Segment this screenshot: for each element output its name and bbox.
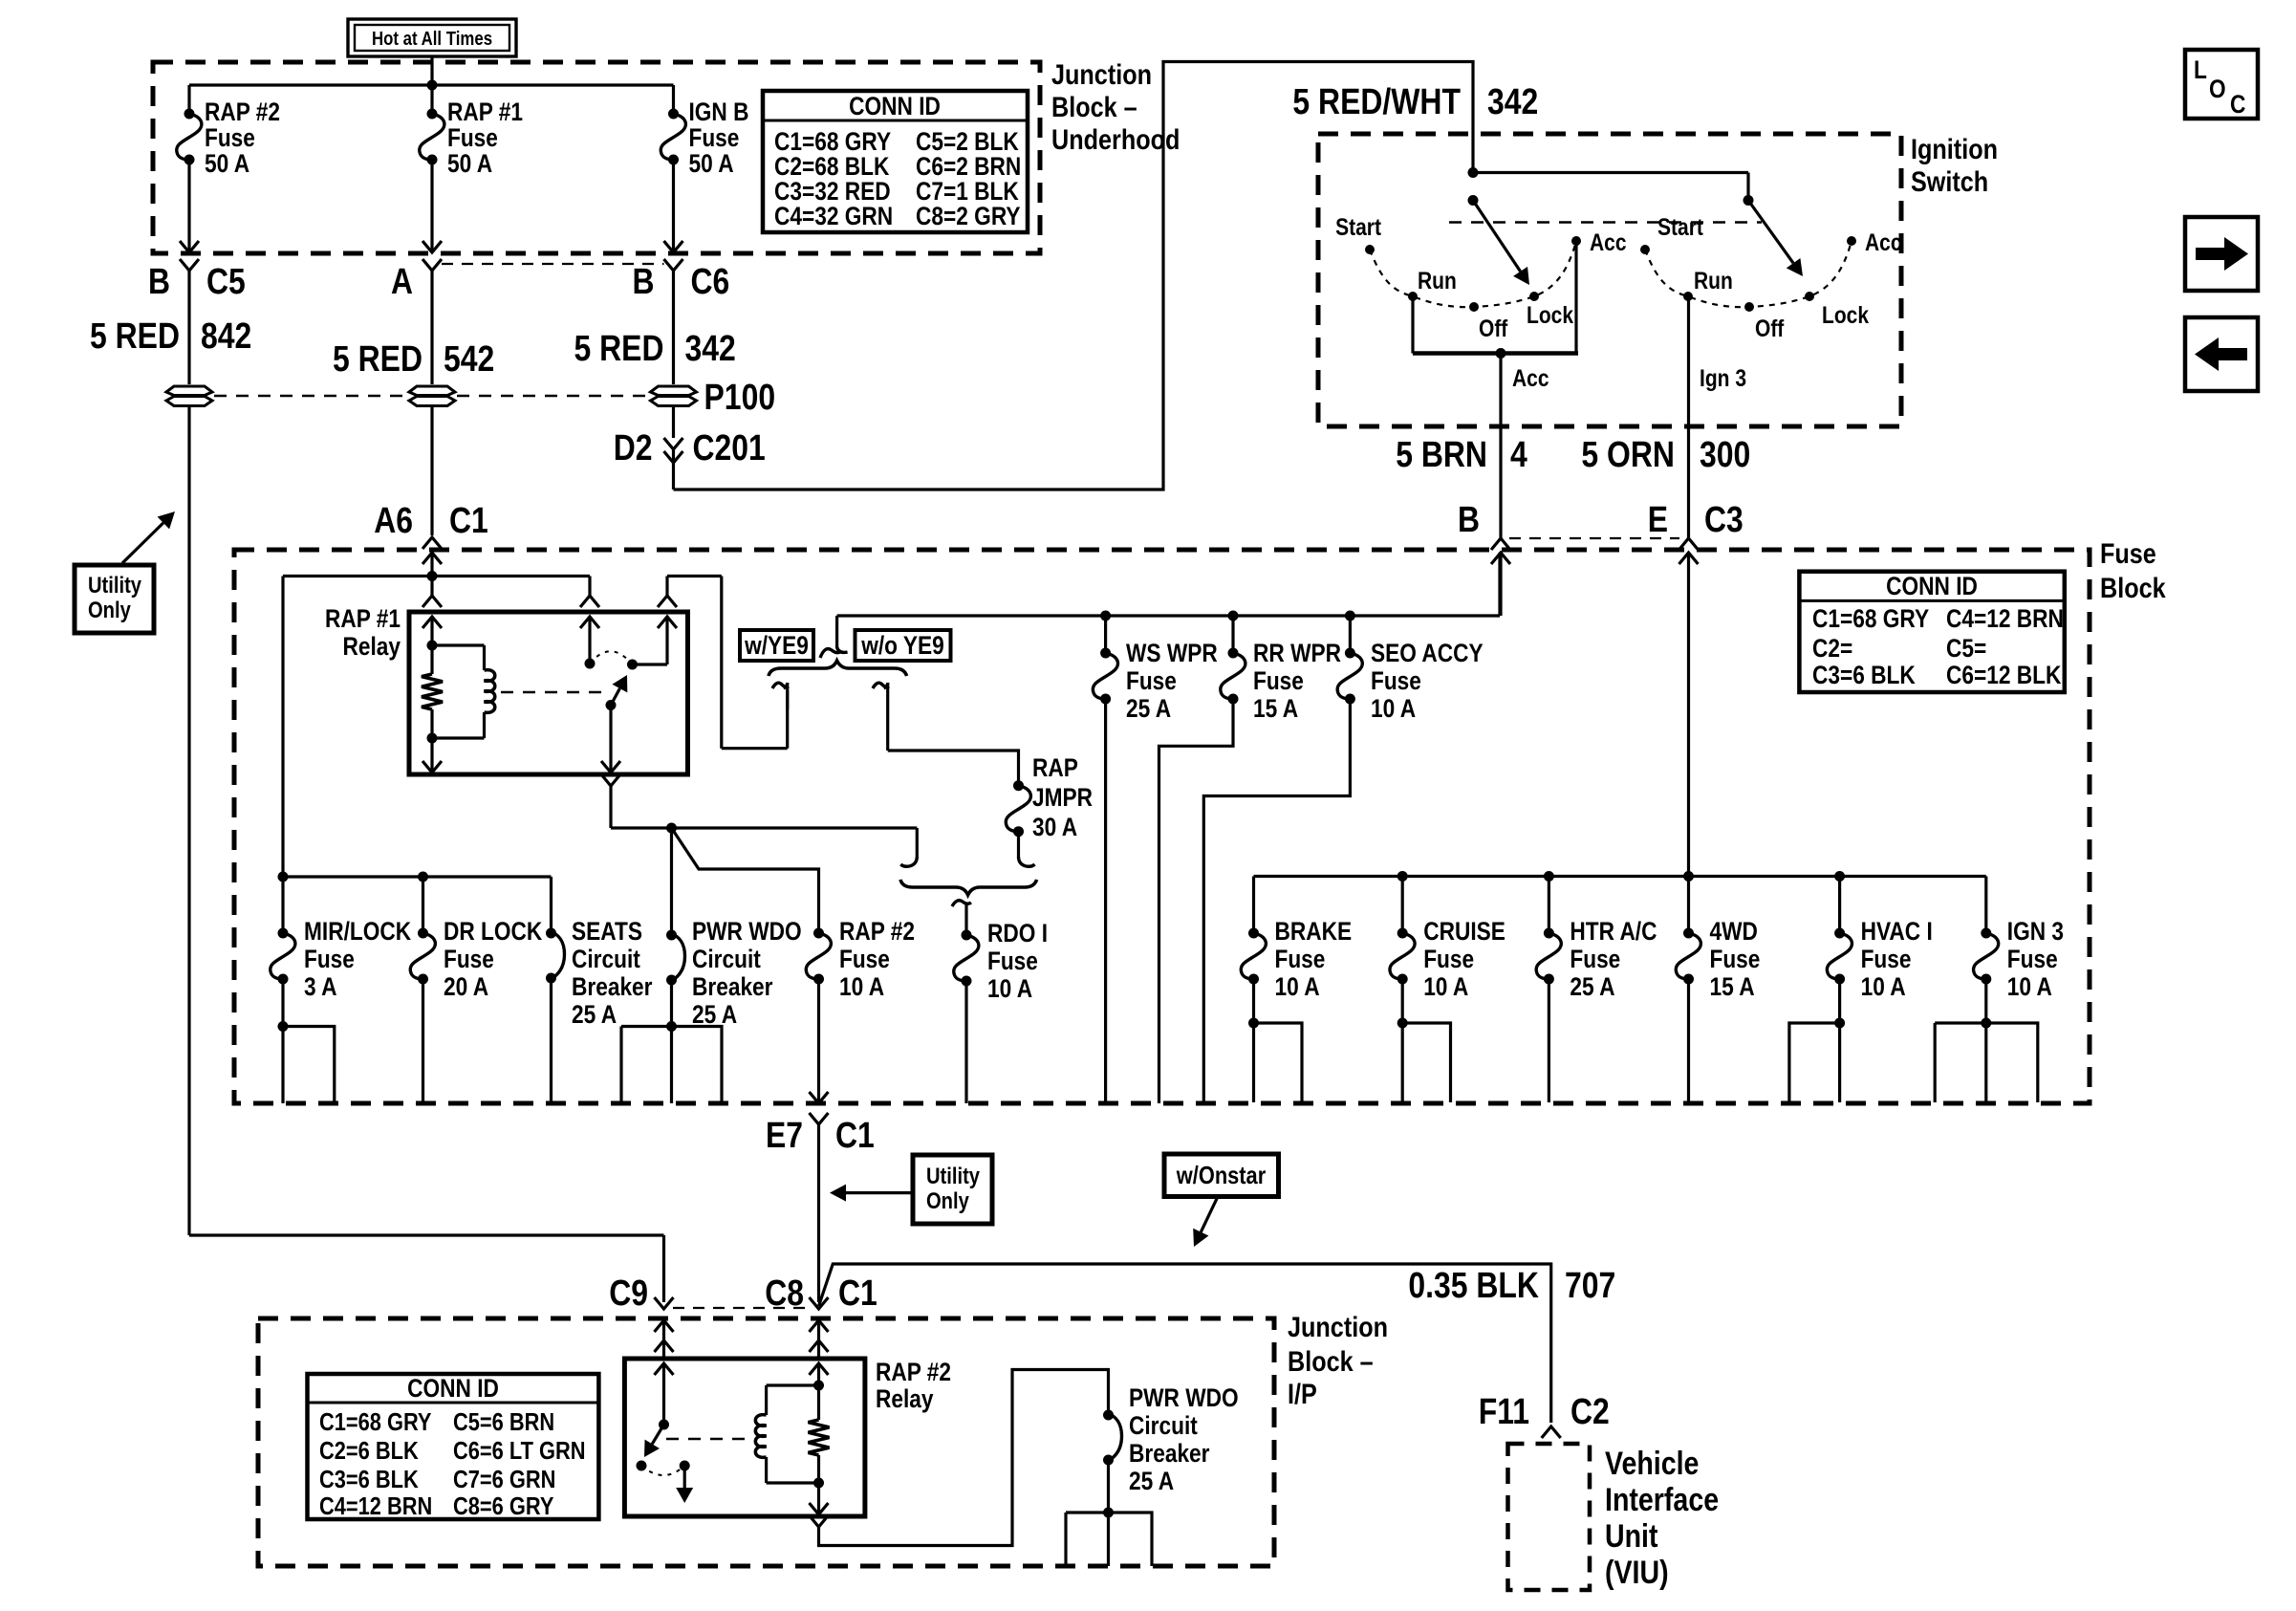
svg-text:C5=: C5=: [1946, 634, 1986, 663]
wire: WS WPR output to border: [1104, 699, 1107, 1103]
Vehicle Interface Unit dashed box: [1508, 1444, 1591, 1590]
selector brace (top, opens down): [769, 661, 907, 676]
svg-text:Off: Off: [1479, 316, 1508, 342]
svg-text:C1: C1: [835, 1116, 875, 1156]
svg-text:C4=32 GRN: C4=32 GRN: [774, 202, 893, 230]
svg-text:IGN B: IGN B: [689, 98, 749, 126]
relay RAP#2 output arrow to case bottom: [817, 1483, 820, 1503]
connector pin A (female chevron below border): [422, 259, 442, 271]
svg-text:Relay: Relay: [343, 632, 401, 661]
svg-text:C2=6 BLK: C2=6 BLK: [319, 1436, 419, 1465]
Fuse Block dashed enclosure: [234, 550, 2090, 1103]
connector C3 pin E entry (Ign 3 feed): [1679, 538, 1699, 550]
svg-text:C4=12 BRN: C4=12 BRN: [1946, 604, 2064, 633]
svg-text:5 RED: 5 RED: [333, 339, 422, 380]
svg-text:5 RED/WHT: 5 RED/WHT: [1292, 82, 1461, 122]
svg-text:10 A: 10 A: [1371, 694, 1416, 723]
svg-text:Fuse: Fuse: [689, 123, 740, 152]
svg-text:O: O: [2209, 75, 2226, 103]
svg-text:5 ORN: 5 ORN: [1581, 435, 1675, 475]
fuse CRUISE 10A: [1397, 928, 1408, 939]
svg-text:10 A: 10 A: [987, 974, 1032, 1003]
svg-text:0.35 BLK: 0.35 BLK: [1408, 1266, 1539, 1306]
svg-text:Start: Start: [1657, 214, 1703, 241]
fuse HVAC I 10A: [1834, 928, 1845, 939]
svg-text:Acc: Acc: [1865, 229, 1902, 256]
connector C1 pin E7 exit (female chevron): [810, 1113, 829, 1124]
svg-text:4WD: 4WD: [1710, 917, 1758, 946]
svg-text:C1: C1: [838, 1274, 877, 1314]
wire: selector apex to wiper fuse bus: [835, 616, 838, 648]
svg-text:Vehicle: Vehicle: [1605, 1446, 1699, 1482]
wire: diagonal branch to RAP #2 fuse: [672, 828, 819, 933]
svg-text:50 A: 50 A: [689, 149, 734, 178]
svg-text:B: B: [633, 262, 655, 302]
svg-text:RR WPR: RR WPR: [1253, 639, 1341, 667]
svg-text:C7=6 GRN: C7=6 GRN: [453, 1465, 555, 1493]
svg-text:Block: Block: [2100, 573, 2166, 604]
wire: RAP #2 fuse output with arrow to border: [187, 160, 190, 241]
relay RAP#1 dotted throw arc: [590, 651, 633, 664]
Junction Block - I/P dashed enclosure: [258, 1318, 1274, 1566]
svg-text:JMPR: JMPR: [1032, 783, 1093, 812]
svg-text:5 BRN: 5 BRN: [1396, 435, 1487, 475]
svg-text:25 A: 25 A: [1129, 1467, 1174, 1495]
svg-text:Only: Only: [88, 598, 131, 623]
wire: IGN 3 output splice: [1984, 979, 1987, 1102]
svg-text:Run: Run: [1694, 268, 1733, 294]
fuse HTR A/C 25A: [1544, 928, 1554, 939]
svg-text:Interface: Interface: [1605, 1482, 1719, 1518]
svg-text:25 A: 25 A: [1570, 972, 1614, 1001]
wire: Acc output down to fuse block, label Acc: [1499, 354, 1502, 539]
dashed mechanical linkage between switch wipers: [1449, 221, 1762, 223]
svg-text:(VIU): (VIU): [1605, 1555, 1669, 1591]
CONN ID table (Junction Block I/P): [308, 1374, 599, 1519]
reference box: back arrow: [2185, 317, 2258, 391]
svg-text:Unit: Unit: [1605, 1518, 1658, 1555]
selector left branch squiggle (w/YE9): [772, 683, 789, 688]
wire: IGN B fuse output with arrow to border: [672, 160, 675, 241]
wire: RAP #2 output to E7 with arrow: [817, 979, 820, 1092]
svg-text:25 A: 25 A: [572, 1000, 617, 1029]
svg-text:Breaker: Breaker: [692, 972, 773, 1001]
svg-text:C3: C3: [1704, 500, 1744, 540]
dashed connector interface line between A and C6: [442, 263, 664, 265]
lower selector brace (opens up): [900, 880, 1037, 895]
circuit breaker PWR WDO 25A (junction block I/P): [1103, 1410, 1114, 1421]
svg-text:Breaker: Breaker: [1129, 1439, 1210, 1468]
svg-text:5 RED: 5 RED: [574, 329, 664, 369]
svg-text:E7: E7: [766, 1116, 803, 1156]
wire: feed bus inside junction block: [189, 83, 674, 86]
svg-text:I/P: I/P: [1288, 1379, 1317, 1410]
svg-text:Fuse: Fuse: [1861, 945, 1912, 973]
svg-text:C8=6 GRY: C8=6 GRY: [453, 1491, 553, 1520]
wire: RR WPR output jog to border: [1159, 699, 1234, 1103]
svg-text:RAP #1: RAP #1: [325, 604, 401, 633]
svg-text:HVAC I: HVAC I: [1861, 917, 1933, 946]
svg-text:E: E: [1648, 500, 1668, 540]
wire: feed bus to RAP#1 relay and left fuses: [283, 575, 590, 577]
svg-text:Fuse: Fuse: [1275, 945, 1326, 973]
junction node on feed bus: [427, 80, 438, 91]
svg-text:w/o YE9: w/o YE9: [860, 631, 943, 660]
svg-text:RAP: RAP: [1032, 753, 1078, 782]
relay RAP#2 coil pin: [810, 1363, 829, 1375]
svg-text:w/Onstar: w/Onstar: [1176, 1161, 1266, 1189]
fuse 4WD 15A: [1683, 928, 1694, 939]
svg-text:Hot at All Times: Hot at All Times: [372, 29, 492, 50]
svg-text:Fuse: Fuse: [987, 947, 1038, 975]
wire: Acc output bus inside ignition switch: [1411, 296, 1414, 354]
svg-text:PWR WDO: PWR WDO: [1129, 1383, 1239, 1412]
connector: relay RAP#2 output socket chevron: [810, 1515, 829, 1527]
svg-text:Fuse: Fuse: [1710, 945, 1761, 973]
connector C8/C1 entry (female chevron + double arrows): [810, 1297, 829, 1309]
ignition switch wiper arrow (Ign 3 section): [1748, 201, 1793, 264]
wire: Ign 3 output down to fuse block, label Ign 3: [1687, 296, 1690, 538]
svg-text:Relay: Relay: [876, 1384, 934, 1413]
svg-text:CONN ID: CONN ID: [1886, 572, 1978, 600]
dashed connector interface line between C9 and C8: [673, 1307, 808, 1309]
svg-text:Start: Start: [1335, 214, 1381, 241]
svg-text:P100: P100: [704, 378, 776, 418]
Junction Block - Underhood dashed enclosure: [153, 62, 1040, 253]
dashed linkage RAP#2 armature to coil: [666, 1438, 753, 1440]
selector right branch squiggle (w/o YE9): [873, 683, 889, 688]
connector C6 pin B (female chevron below border): [664, 259, 683, 271]
svg-text:Fuse: Fuse: [447, 123, 498, 152]
relay RAP#2 dotted throw arc: [641, 1466, 684, 1475]
relay RAP#2 coil winding: [767, 1383, 819, 1386]
connector C2 pin F11 (female chevron): [1542, 1426, 1561, 1438]
svg-text:IGN 3: IGN 3: [2007, 917, 2064, 946]
wire: left fuse bus: [283, 875, 552, 878]
annotation arrow from lower Utility Only to E7 wire: [846, 1191, 913, 1194]
svg-text:B: B: [148, 262, 170, 302]
svg-text:10 A: 10 A: [1861, 972, 1906, 1001]
fuse RAP #2 10A (fuse block): [813, 928, 824, 939]
label box: Hot at All Times: [348, 19, 516, 56]
wire: RAP #2 utility feed down the left side: [187, 407, 190, 1235]
relay RAP#1 switch output pin arrow: [658, 596, 677, 607]
lower selector right branch curl: [1017, 832, 1020, 857]
svg-text:RAP #1: RAP #1: [447, 98, 523, 126]
wire: SEATS output: [550, 978, 552, 1103]
lower selector output squiggle: [952, 901, 971, 906]
fuse RAP JMPR 30A: [1013, 780, 1024, 791]
svg-text:10 A: 10 A: [2007, 972, 2052, 1001]
svg-text:Circuit: Circuit: [572, 945, 640, 973]
svg-text:Fuse: Fuse: [1253, 666, 1304, 695]
CONN ID table (Junction Block - Underhood): [763, 91, 1028, 232]
ignition switch Acc-section contact arc with positions Start/Run/Off/Lock/Acc: [1370, 241, 1576, 307]
svg-text:C6: C6: [691, 262, 730, 302]
reference box: forward arrow: [2185, 217, 2258, 291]
RAP #1 Relay box: [409, 612, 688, 774]
svg-text:Block –: Block –: [1051, 92, 1137, 123]
fuse BRAKE 10A: [1248, 928, 1259, 939]
svg-text:Acc: Acc: [1512, 365, 1549, 392]
wire: Hot at All Times feed down to bus: [430, 56, 433, 85]
label box w/YE9: [740, 630, 813, 661]
connector C1 pin A6 entry (female chevron + male arrow): [422, 537, 442, 549]
svg-text:CONN ID: CONN ID: [849, 92, 941, 120]
svg-text:50 A: 50 A: [447, 149, 492, 178]
wire: right fuse bus (Ign 3 feed): [1254, 875, 1986, 878]
svg-text:SEO ACCY: SEO ACCY: [1371, 639, 1484, 667]
svg-text:Fuse: Fuse: [304, 945, 355, 973]
fuse IGN 3 10A: [1981, 928, 1991, 939]
svg-text:Lock: Lock: [1527, 302, 1573, 329]
relay RAP#2 armature pin: [655, 1363, 674, 1375]
svg-text:DR LOCK: DR LOCK: [444, 917, 543, 946]
relay RAP#1 coil pin (chevron + arrow): [430, 577, 433, 597]
ignition switch Ign3-section contact arc with positions Start/Run/Off/Lock/Acc: [1645, 241, 1852, 307]
wire: RAP #1 fuse output with arrow to border: [430, 160, 433, 241]
svg-text:C8=2 GRY: C8=2 GRY: [916, 202, 1021, 230]
svg-text:Fuse: Fuse: [2007, 945, 2058, 973]
svg-text:C1=68 GRY: C1=68 GRY: [319, 1407, 432, 1436]
svg-text:50 A: 50 A: [205, 149, 249, 178]
svg-text:4: 4: [1510, 435, 1527, 475]
fuse DR LOCK 20A: [418, 928, 428, 939]
svg-text:10 A: 10 A: [1423, 972, 1468, 1001]
svg-text:Junction: Junction: [1288, 1312, 1388, 1343]
fuse WS WPR 25A: [1104, 616, 1107, 653]
label box Utility Only (lower): [913, 1155, 992, 1224]
dashed connector interface line between B and C3: [1509, 537, 1679, 539]
svg-text:C1=68 GRY: C1=68 GRY: [1812, 604, 1929, 633]
wire: HTR A/C output: [1548, 979, 1550, 1102]
svg-text:C3=6 BLK: C3=6 BLK: [1812, 661, 1916, 689]
wire: branch down to PWR WDO breaker: [670, 828, 673, 935]
svg-text:HTR A/C: HTR A/C: [1570, 917, 1657, 946]
ignition switch wiper arrow (Acc section): [1473, 201, 1521, 272]
svg-text:Circuit: Circuit: [1129, 1411, 1198, 1440]
svg-text:RAP #2: RAP #2: [839, 917, 915, 946]
svg-text:Fuse: Fuse: [1126, 666, 1177, 695]
wire: PWR WDO (I/P) output splice: [1107, 1460, 1110, 1566]
svg-text:MIR/LOCK: MIR/LOCK: [304, 917, 412, 946]
svg-text:D2: D2: [614, 428, 653, 468]
svg-text:342: 342: [685, 329, 736, 369]
Ignition Switch dashed enclosure: [1318, 134, 1901, 426]
svg-text:Ign 3: Ign 3: [1700, 365, 1746, 392]
svg-text:C201: C201: [693, 428, 766, 468]
wire: w/Onstar 707 wire to VIU: [819, 1264, 1551, 1423]
svg-text:C5: C5: [206, 262, 246, 302]
svg-text:20 A: 20 A: [444, 972, 488, 1001]
svg-text:B: B: [1458, 500, 1480, 540]
svg-text:SEATS: SEATS: [572, 917, 642, 946]
svg-text:Only: Only: [926, 1188, 969, 1214]
svg-text:Fuse: Fuse: [1371, 666, 1421, 695]
svg-text:C1: C1: [449, 501, 488, 541]
svg-text:CRUISE: CRUISE: [1423, 917, 1505, 946]
svg-text:Underhood: Underhood: [1051, 124, 1180, 156]
svg-text:15 A: 15 A: [1710, 972, 1755, 1001]
svg-text:C: C: [2230, 90, 2245, 119]
relay RAP#1 switch moving contact: [627, 660, 638, 670]
junction node A6 feed: [427, 571, 438, 581]
wire: DR LOCK output: [422, 979, 424, 1103]
svg-text:842: 842: [201, 316, 251, 357]
label box w/Onstar: [1164, 1154, 1279, 1197]
wire: PWR WDO output splice: [670, 980, 673, 1103]
svg-text:Junction: Junction: [1051, 59, 1152, 91]
svg-text:C9: C9: [609, 1274, 648, 1314]
svg-text:Fuse: Fuse: [839, 945, 890, 973]
svg-text:CONN ID: CONN ID: [407, 1374, 499, 1403]
connector C9 entry (female chevron + double arrows): [655, 1297, 674, 1309]
svg-text:Switch: Switch: [1911, 166, 1988, 198]
svg-text:Fuse: Fuse: [1423, 945, 1474, 973]
svg-text:C4=12 BRN: C4=12 BRN: [319, 1491, 432, 1520]
dashed linkage coil to armature: [501, 691, 602, 693]
lower selector left branch curl: [916, 828, 919, 857]
svg-text:C6=6 LT GRN: C6=6 LT GRN: [453, 1436, 586, 1465]
svg-text:25 A: 25 A: [1126, 694, 1171, 723]
svg-text:RAP #2: RAP #2: [205, 98, 280, 126]
relay RAP#2 resistor: [809, 1420, 830, 1455]
wire: utility feed across to C9: [189, 1233, 664, 1236]
connector: relay RAP#1 output socket chevron: [601, 774, 620, 786]
svg-text:RAP #2: RAP #2: [876, 1358, 951, 1386]
fuse RAP #1 50A (junction block): [430, 85, 433, 114]
connector pin B entry (Acc feed): [1491, 538, 1510, 550]
wire: RAP#2 relay output to PWR WDO breaker (I/P): [819, 1370, 1109, 1546]
svg-text:542: 542: [444, 339, 494, 380]
annotation arrow from w/Onstar to 707 wire: [1201, 1197, 1218, 1232]
relay RAP#1 coil winding: [432, 643, 485, 646]
wire: MIR/LOCK output splice: [281, 979, 284, 1103]
wire: w/o YE9 branch to RAP JMPR fuse: [888, 751, 1019, 786]
RAP #2 Relay box: [624, 1359, 865, 1516]
fuse RAP #2 50A (junction block): [187, 85, 190, 114]
svg-text:707: 707: [1565, 1266, 1615, 1306]
wire: 4WD output: [1687, 979, 1690, 1102]
circuit breaker PWR WDO 25A (fuse block): [666, 930, 677, 941]
svg-text:Breaker: Breaker: [572, 972, 653, 1001]
wire: RDO I output: [964, 981, 967, 1103]
connector C201 pin D2 (double arrow down): [672, 407, 675, 438]
relay RAP#1 resistor: [422, 674, 443, 709]
svg-text:C5=6 BRN: C5=6 BRN: [453, 1407, 554, 1436]
svg-text:25 A: 25 A: [692, 1000, 737, 1029]
svg-text:10 A: 10 A: [1275, 972, 1320, 1001]
svg-text:C3=6 BLK: C3=6 BLK: [319, 1465, 419, 1493]
svg-text:A6: A6: [374, 501, 413, 541]
svg-text:w/YE9: w/YE9: [744, 631, 809, 660]
dashed line linking P100 grommets: [214, 395, 407, 397]
svg-text:Ignition: Ignition: [1911, 134, 1998, 165]
selector squiggle between option boxes: [820, 649, 840, 658]
svg-text:Fuse: Fuse: [1570, 945, 1620, 973]
connector C5 pin B (female chevron below border): [180, 259, 199, 271]
svg-text:Lock: Lock: [1822, 302, 1869, 329]
annotation arrow from Utility Only to RAP#2 wire: [122, 523, 163, 563]
svg-text:Off: Off: [1755, 316, 1785, 342]
grommet P100 on IGN B wire: [651, 386, 697, 396]
relay RAP#1 armature arrow: [606, 700, 617, 710]
svg-text:WS WPR: WS WPR: [1126, 639, 1218, 667]
wire: relay output over to PWR WDO / RAP#2 / selector: [611, 826, 672, 829]
svg-text:Acc: Acc: [1590, 229, 1627, 256]
fuse RR WPR 15A: [1231, 616, 1234, 653]
wire: wiper fuse bus: [837, 614, 1500, 617]
svg-text:3 A: 3 A: [304, 972, 337, 1001]
wire: relay pin out top to selector (w/YE9 routing): [667, 575, 722, 577]
svg-text:300: 300: [1700, 435, 1750, 475]
svg-text:BRAKE: BRAKE: [1275, 917, 1353, 946]
label box w/o YE9: [856, 630, 951, 661]
wire: CRUISE output splice: [1401, 979, 1404, 1102]
relay RAP#2 armature arrow: [652, 1425, 663, 1444]
circuit breaker SEATS 25A: [546, 928, 556, 939]
fuse SEO ACCY 10A: [1349, 616, 1352, 653]
svg-text:Circuit: Circuit: [692, 945, 761, 973]
label box Utility Only (upper): [75, 565, 154, 633]
reference box LOC: [2185, 50, 2258, 119]
svg-text:10 A: 10 A: [839, 972, 884, 1001]
svg-text:Run: Run: [1418, 268, 1457, 294]
svg-text:Block –: Block –: [1288, 1346, 1374, 1378]
wire: SEO ACCY output jog to border: [1203, 699, 1350, 1103]
relay RAP#1 armature to output: [609, 706, 612, 762]
svg-text:C2: C2: [1570, 1392, 1610, 1432]
svg-text:Fuse: Fuse: [2100, 538, 2156, 570]
svg-text:C2=: C2=: [1812, 634, 1852, 663]
grommet P100 on RAP #2 wire: [166, 386, 212, 396]
svg-text:Fuse: Fuse: [444, 945, 494, 973]
svg-text:30 A: 30 A: [1032, 813, 1077, 841]
svg-text:15 A: 15 A: [1253, 694, 1298, 723]
svg-text:C6=12 BLK: C6=12 BLK: [1946, 661, 2062, 689]
fuse IGN B 50A (junction block): [672, 85, 675, 114]
svg-text:Utility: Utility: [88, 573, 142, 599]
wire: RAP #1 feed down to fuse block: [430, 407, 433, 535]
svg-text:5 RED: 5 RED: [90, 316, 180, 357]
relay RAP#1 switch fixed contact (normally open): [588, 577, 591, 597]
relay RAP#2 open contact arrow: [680, 1461, 690, 1471]
svg-text:L: L: [2194, 55, 2207, 84]
fuse MIR/LOCK 3A: [278, 928, 289, 939]
svg-text:342: 342: [1487, 82, 1538, 122]
svg-text:F11: F11: [1479, 1392, 1529, 1432]
wire: BRAKE output splice: [1252, 979, 1255, 1102]
CONN ID table (Fuse Block): [1799, 572, 2064, 692]
svg-text:Fuse: Fuse: [205, 123, 255, 152]
grommet P100 on RAP #1 wire: [409, 386, 455, 396]
svg-text:Utility: Utility: [926, 1164, 981, 1189]
wire: ignition feed split: [1468, 167, 1479, 178]
fuse RDO I 10A: [962, 930, 972, 941]
wire: selector output to RDO I fuse: [964, 903, 967, 935]
svg-text:RDO I: RDO I: [987, 919, 1048, 947]
relay RAP#1 coil ground arrow to case bottom: [430, 738, 433, 762]
wire: IGN B 342 wire across and up to ignition switch: [674, 62, 1474, 490]
svg-text:A: A: [391, 262, 413, 302]
svg-text:PWR WDO: PWR WDO: [692, 917, 802, 946]
wire: HVAC I output splice: [1838, 979, 1841, 1102]
